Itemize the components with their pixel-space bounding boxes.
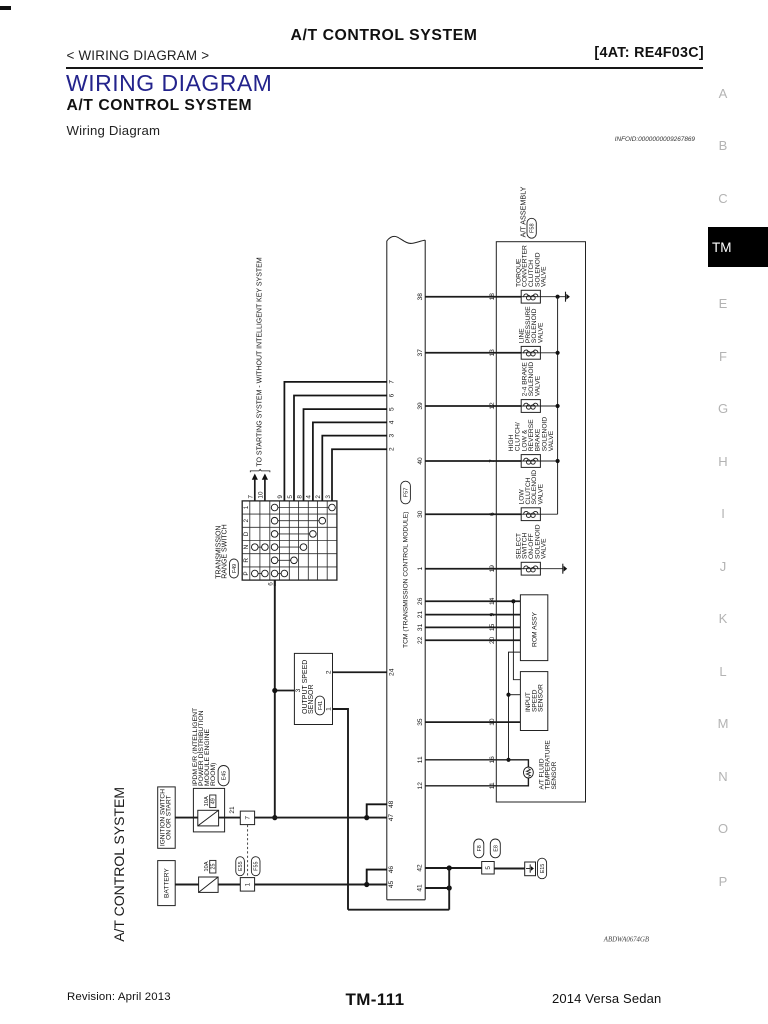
svg-text:N: N [243,544,250,549]
torque converter clutch solenoid valve (coil symbol) [521,290,540,303]
wire line pressure valve to bus [540,352,557,354]
svg-text:12: 12 [489,402,496,410]
svg-text:6: 6 [389,393,396,397]
TCM (Transmission Control Module) box with wavy top [387,236,425,243]
wire TCM pin 41 to junction [425,887,449,889]
svg-text:SENSOR: SENSOR [551,761,558,789]
junction dot sensor common / input speed sensor [506,693,510,697]
fuse 49 (10A) symbol [198,810,219,826]
svg-text:F58: F58 [530,223,536,233]
low clutch solenoid valve (coil symbol) [521,508,540,521]
wire TCM pin 11 to temperature sensor (pin 16) [425,760,528,767]
wire range switch pin 5 to TCM pin 6 [294,396,387,501]
range switch contacts row N [255,546,265,548]
range switch contacts row P [255,573,265,575]
connector F8 oval [474,839,484,858]
svg-text:25: 25 [211,864,217,870]
svg-text:10A: 10A [204,796,210,806]
connector boundary dashed line (E55/F55) [247,825,249,878]
svg-text:3: 3 [325,495,332,499]
junction dot on pin 14 wire [511,599,515,603]
svg-text:5: 5 [287,495,294,499]
svg-text:14: 14 [489,597,496,605]
svg-text:ROOM): ROOM) [210,763,217,786]
svg-text:1: 1 [417,567,424,571]
brace grouping arrows [250,469,270,472]
svg-text:A/T ASSEMBLY: A/T ASSEMBLY [519,186,528,237]
wire range switch pin 2 to TCM pin 3 [322,436,387,501]
ground link wire (bottom horizontal) [348,909,449,911]
svg-text:38: 38 [417,293,424,301]
range switch contacts row 1 [275,507,332,509]
svg-text:TO STARTING SYSTEM - WITHOUT I: TO STARTING SYSTEM - WITHOUT INTELLIGENT… [257,257,264,466]
svg-text:P: P [243,571,250,575]
wire TCM pin 30 to low clutch solenoid valve [425,513,521,515]
INPUT SPEED SENSOR box [520,672,547,731]
svg-text:1: 1 [243,505,250,509]
A/T assembly box [496,242,585,802]
svg-text:41: 41 [417,884,424,892]
wire connector 5 to body ground E15 [494,868,525,870]
wire TCM pin 12 to temperature sensor (pin 11) [425,778,528,786]
svg-text:31: 31 [417,623,424,631]
svg-text:7: 7 [489,459,496,463]
svg-text:VALVE: VALVE [548,430,555,451]
svg-text:ROM ASSY: ROM ASSY [531,612,538,647]
svg-text:F55: F55 [254,862,260,871]
wire from pin-14 node down to input speed sensor [513,601,520,679]
wire range switch pin 4 to TCM pin 4 [313,422,387,501]
junction dot at bus / high clutch valve [556,459,560,463]
svg-text:F8: F8 [477,845,483,851]
svg-text:F57: F57 [404,488,410,498]
ground symbol (select switch solenoid) [562,564,564,574]
wire range switch pin 3 to TCM pin 2 [332,449,387,501]
svg-text:21: 21 [417,611,424,619]
connector E8 oval [490,839,500,858]
connector F49 oval [230,559,239,578]
range switch contacts row R [275,559,294,561]
wire range switch pin 9 to TCM pin 7 [284,382,386,501]
ground link wire (vertical) [448,868,450,910]
wire TCM pin 1 to select switch on-off solenoid valve [425,568,521,570]
svg-text:11: 11 [489,782,496,789]
svg-text:35: 35 [417,718,424,726]
wire TCM pin 42 to fuse connector 5 [425,867,482,869]
svg-text:16: 16 [489,756,496,764]
wire TCM pin 26 to ROM assy pin 14 [425,600,520,602]
high clutch / low &amp; reverse brake solenoid valve (coil symbol) [521,455,540,468]
wire battery to fuse 25 [175,884,198,886]
svg-text:ABDWA0674GB: ABDWA0674GB [603,936,649,943]
svg-text:48: 48 [388,800,395,808]
svg-text:13: 13 [489,349,496,357]
svg-text:7: 7 [245,816,252,820]
wire TCM pin 35 to input speed sensor pin 10 [425,721,520,723]
svg-text:46: 46 [388,866,395,874]
svg-text:TCM (TRANSMISSION CONTROL MODU: TCM (TRANSMISSION CONTROL MODULE) [402,512,409,648]
range switch contacts row 2 [275,520,323,522]
svg-text:ON OR START: ON OR START [166,795,173,839]
svg-text:SENSOR: SENSOR [308,684,315,714]
svg-text:7: 7 [248,495,255,499]
svg-text:1: 1 [325,707,332,711]
svg-text:A/T CONTROL SYSTEM: A/T CONTROL SYSTEM [111,787,127,942]
connector E55 oval [236,857,245,876]
svg-text:26: 26 [417,597,424,605]
select switch on-off solenoid valve (coil symbol) [521,562,540,575]
wire torque converter valve to ground [540,296,565,298]
svg-text:15: 15 [489,623,496,631]
common return bus wire (vertical) [557,297,559,515]
ROM ASSY box [520,595,547,661]
fuse 25 (10A) symbol [199,877,219,892]
svg-text:E55: E55 [238,861,244,871]
junction dot on torque converter valve wire [556,295,560,299]
wire TCM pin 39 to 2-4 brake solenoid valve [425,405,521,407]
svg-text:9: 9 [489,612,496,616]
svg-text:3: 3 [295,688,302,692]
svg-text:10A: 10A [204,861,210,871]
svg-text:21: 21 [229,806,236,814]
svg-text:12: 12 [417,782,424,790]
wire range switch pin 8 to TCM pin 5 [304,409,387,501]
svg-text:2: 2 [325,670,332,674]
range switch pin 7 arrow wire to starting system [254,480,256,501]
svg-text:VALVE: VALVE [534,375,541,396]
connector F58 oval [527,218,536,238]
connector 7 square [240,811,254,825]
svg-text:E45: E45 [222,771,228,781]
svg-text:SENSOR: SENSOR [538,684,545,712]
wire connector 1 to TCM pin 45 [255,884,387,886]
OUTPUT SPEED SENSOR box [294,653,332,724]
svg-text:6: 6 [268,582,275,586]
svg-text:11: 11 [417,756,424,763]
junction dot battery feed / pin 46 branch [364,882,369,887]
wire fuse to connector 1 [218,884,240,886]
wire select switch valve to ground [540,568,562,570]
wire low clutch valve to bus corner [540,513,557,515]
svg-text:4: 4 [306,495,313,499]
svg-text:8: 8 [296,495,303,499]
branch wire to TCM pin 48 [367,804,387,817]
svg-text:40: 40 [417,457,424,465]
svg-text:7: 7 [389,380,396,384]
svg-text:5: 5 [485,866,492,870]
svg-text:RANGE SWITCH: RANGE SWITCH [222,524,229,578]
connector E15 oval [538,858,547,879]
svg-text:19: 19 [489,565,496,573]
power rail wire from range switch pin 6 down to ignition feed [274,580,276,818]
wire TCM pin 21 to ROM assy pin 9 [425,614,520,616]
A/T fluid temperature sensor (thermistor symbol) [524,767,534,778]
2-4 brake solenoid valve (coil symbol) [521,400,540,413]
wire fuse to connector 7 [219,817,241,819]
svg-text:6: 6 [489,512,496,516]
svg-text:30: 30 [417,510,424,518]
svg-text:18: 18 [489,293,496,301]
connector F55 oval [251,857,260,876]
junction dot at bus / line pressure valve [556,351,560,355]
connector 1 square [240,878,254,892]
junction dot ignition feed / pin 48 branch [364,815,369,820]
wire TCM pin 37 to line pressure solenoid valve [425,352,521,354]
svg-text:39: 39 [417,402,424,410]
svg-text:3: 3 [389,433,396,437]
svg-text:5: 5 [389,407,396,411]
range switch pin 6 wire (to power rail) [274,580,276,586]
IPDM E/R box [193,788,224,832]
svg-text:F41: F41 [318,701,324,710]
svg-text:9: 9 [277,495,284,499]
wire output speed sensor pin 1 down to ground link [333,709,349,910]
junction dot power rail / sensor pin 3 [272,688,277,693]
svg-text:45: 45 [388,881,395,889]
svg-text:VALVE: VALVE [541,538,548,559]
svg-text:20: 20 [489,636,496,644]
connector E45 oval [218,766,229,786]
svg-text:VALVE: VALVE [537,322,544,343]
svg-text:10: 10 [258,491,265,499]
connector F57 oval [401,481,411,504]
fuse number 25 box [210,860,216,873]
wire TCM pin 31 to ROM assy pin 15 [425,626,520,628]
range switch pin 10 arrow wire to starting system [264,480,266,501]
wire TCM pin 40 to high clutch / low &amp; reverse brake solenoid valve [425,460,521,462]
wire TCM pin 38 to torque converter clutch solenoid valve [425,296,521,298]
junction dot power rail / ignition feed [272,815,277,820]
junction dot at bus / 2-4 brake valve [556,404,560,408]
wire 2-4 brake valve to bus [540,405,557,407]
connector 5 (fuse block) square [482,862,495,875]
wire from ROM assy down to sensor common [509,652,521,760]
svg-text:E15: E15 [540,864,546,874]
range switch contacts row D [275,533,313,535]
svg-text:22: 22 [417,636,424,644]
ground symbol (solenoid common) [565,292,567,302]
svg-text:4: 4 [389,420,396,424]
wire ignition switch to IPDM fuse [175,817,198,819]
wire connector 7 to TCM pin 47 [255,817,387,819]
fuse number 49 box [210,795,216,808]
junction dot sensor common / A/T fluid temperature sensor wire [506,758,510,762]
BATTERY box [158,861,176,906]
junction dot pin 41 wire [447,885,452,890]
svg-text:49: 49 [211,798,217,804]
svg-text:2: 2 [389,447,396,451]
junction dot pin 42 wire [447,865,452,870]
svg-text:2: 2 [243,518,250,522]
body ground E15 (boxed ground symbol) [525,862,536,876]
branch wire to TCM pin 46 [367,870,387,885]
wire node to input speed sensor [509,694,521,696]
wire power rail to sensor pin 3 [275,690,295,692]
svg-text:R: R [243,558,250,563]
svg-text:47: 47 [388,814,395,822]
wire high clutch valve to bus [540,460,557,462]
svg-text:2: 2 [315,495,322,499]
line pressure solenoid valve (coil symbol) [521,346,540,359]
wire TCM pin 22 to ROM assy pin 20 [425,639,520,641]
svg-text:VALVE: VALVE [537,483,544,504]
wire output speed sensor pin 2 to TCM pin 24 [333,671,387,673]
svg-text:F49: F49 [232,564,238,573]
svg-text:37: 37 [417,349,424,357]
svg-text:42: 42 [417,864,424,872]
IGNITION SWITCH ON OR START box [158,787,176,848]
svg-text:VALVE: VALVE [541,266,548,287]
svg-text:10: 10 [489,718,496,726]
connector F41 oval [315,696,324,715]
svg-text:E8: E8 [493,845,499,852]
svg-text:D: D [243,531,250,536]
svg-text:1: 1 [245,882,252,886]
transmission range switch contact grid [249,501,251,580]
svg-text:BATTERY: BATTERY [164,868,171,898]
svg-text:24: 24 [388,668,395,676]
